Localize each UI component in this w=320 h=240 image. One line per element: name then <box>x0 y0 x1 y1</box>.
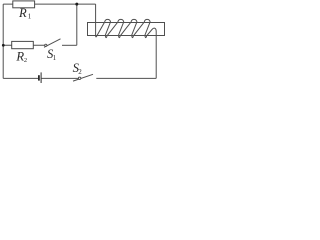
svg-text:1: 1 <box>28 12 32 20</box>
svg-text:R: R <box>18 6 27 20</box>
svg-text:2: 2 <box>24 57 27 64</box>
svg-text:2: 2 <box>78 68 82 76</box>
svg-text:1: 1 <box>53 54 57 62</box>
